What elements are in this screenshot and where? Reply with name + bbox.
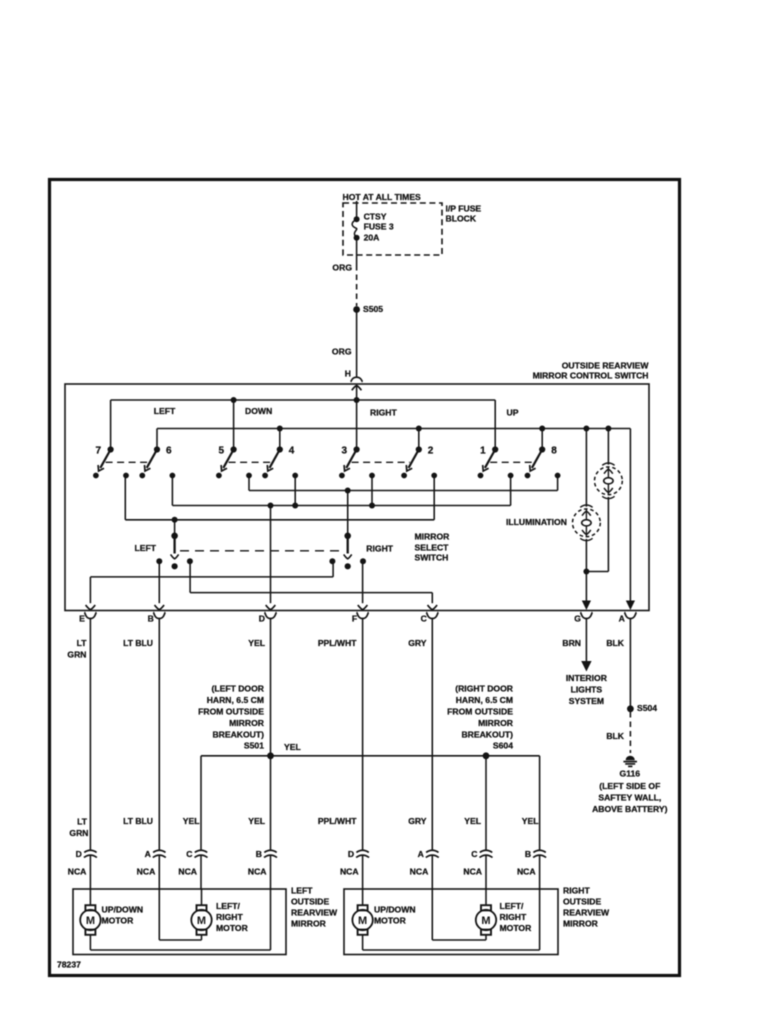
svg-text:A: A <box>418 849 424 859</box>
svg-text:GRY: GRY <box>408 816 427 826</box>
svg-text:C: C <box>421 614 427 624</box>
svg-text:LEFT/: LEFT/ <box>500 901 524 911</box>
svg-text:5: 5 <box>219 446 225 457</box>
svg-text:SYSTEM: SYSTEM <box>569 696 604 706</box>
svg-text:LT BLU: LT BLU <box>123 638 153 648</box>
svg-text:SWITCH: SWITCH <box>415 552 449 562</box>
svg-text:(LEFT DOOR: (LEFT DOOR <box>211 684 264 694</box>
svg-text:CTSY: CTSY <box>364 212 387 222</box>
svg-text:DOWN: DOWN <box>245 406 272 416</box>
svg-text:SELECT: SELECT <box>415 543 450 553</box>
svg-text:20A: 20A <box>364 233 380 243</box>
svg-text:NCA: NCA <box>137 867 156 877</box>
svg-text:I/P FUSE: I/P FUSE <box>446 204 482 214</box>
svg-text:YEL: YEL <box>522 816 539 826</box>
svg-text:LEFT/: LEFT/ <box>216 901 240 911</box>
svg-text:B: B <box>525 849 531 859</box>
svg-text:LT: LT <box>77 638 88 648</box>
svg-text:OUTSIDE: OUTSIDE <box>563 897 601 907</box>
svg-text:ORG: ORG <box>332 263 352 273</box>
svg-text:BLK: BLK <box>606 638 624 648</box>
svg-text:B: B <box>148 614 154 624</box>
svg-text:GRN: GRN <box>69 828 88 838</box>
svg-text:MOTOR: MOTOR <box>374 916 407 926</box>
svg-text:NCA: NCA <box>517 867 536 877</box>
svg-text:F: F <box>352 614 357 624</box>
svg-text:FROM OUTSIDE: FROM OUTSIDE <box>198 707 264 717</box>
svg-text:M: M <box>197 915 206 927</box>
svg-text:RIGHT: RIGHT <box>370 408 397 418</box>
svg-text:YEL: YEL <box>248 816 265 826</box>
svg-text:2: 2 <box>428 446 434 457</box>
svg-text:YEL: YEL <box>248 638 265 648</box>
svg-text:D: D <box>259 614 265 624</box>
svg-text:H: H <box>345 369 351 379</box>
svg-text:8: 8 <box>551 446 557 457</box>
svg-text:MOTOR: MOTOR <box>102 916 135 926</box>
svg-text:7: 7 <box>96 446 102 457</box>
svg-text:LEFT: LEFT <box>291 886 313 896</box>
svg-text:M: M <box>86 915 95 927</box>
svg-text:3: 3 <box>342 446 348 457</box>
svg-text:UP: UP <box>507 408 519 418</box>
svg-text:MOTOR: MOTOR <box>216 923 249 933</box>
svg-text:MIRROR CONTROL SWITCH: MIRROR CONTROL SWITCH <box>533 371 649 381</box>
svg-text:MOTOR: MOTOR <box>500 923 533 933</box>
svg-text:RIGHT: RIGHT <box>500 912 527 922</box>
svg-text:HARN, 6.5 CM: HARN, 6.5 CM <box>456 695 513 705</box>
svg-text:G116: G116 <box>620 769 641 779</box>
svg-text:G: G <box>574 614 581 624</box>
svg-text:LT BLU: LT BLU <box>123 816 153 826</box>
svg-text:NCA: NCA <box>340 867 359 877</box>
svg-text:D: D <box>348 849 354 859</box>
svg-text:SAFTEY WALL,: SAFTEY WALL, <box>598 792 661 802</box>
svg-text:LEFT: LEFT <box>154 406 176 416</box>
svg-text:LEFT: LEFT <box>135 543 157 553</box>
svg-text:NCA: NCA <box>178 867 197 877</box>
svg-text:OUTSIDE: OUTSIDE <box>291 897 329 907</box>
svg-text:REARVIEW: REARVIEW <box>291 908 338 918</box>
svg-text:M: M <box>481 915 490 927</box>
svg-text:HOT AT ALL TIMES: HOT AT ALL TIMES <box>343 192 422 202</box>
svg-text:NCA: NCA <box>68 867 87 877</box>
svg-text:D: D <box>76 849 82 859</box>
svg-text:BREAKOUT): BREAKOUT) <box>461 729 513 739</box>
svg-text:6: 6 <box>166 446 172 457</box>
svg-text:S501: S501 <box>244 741 264 751</box>
svg-text:S504: S504 <box>637 703 657 713</box>
svg-text:S604: S604 <box>493 741 513 751</box>
svg-text:(LEFT SIDE OF: (LEFT SIDE OF <box>599 781 660 791</box>
svg-text:BREAKOUT): BREAKOUT) <box>212 729 264 739</box>
svg-text:RIGHT: RIGHT <box>563 886 590 896</box>
svg-text:MIRROR: MIRROR <box>478 718 514 728</box>
svg-text:B: B <box>256 849 262 859</box>
svg-text:RIGHT: RIGHT <box>216 912 243 922</box>
svg-text:78237: 78237 <box>57 960 81 970</box>
svg-text:FUSE 3: FUSE 3 <box>364 221 394 231</box>
svg-text:INTERIOR: INTERIOR <box>566 673 608 683</box>
svg-text:NCA: NCA <box>248 867 267 877</box>
svg-text:FROM OUTSIDE: FROM OUTSIDE <box>447 707 513 717</box>
svg-text:GRY: GRY <box>408 638 427 648</box>
svg-text:MIRROR: MIRROR <box>291 919 327 929</box>
svg-text:UP/DOWN: UP/DOWN <box>374 905 416 915</box>
svg-text:C: C <box>186 849 192 859</box>
svg-text:YEL: YEL <box>183 816 200 826</box>
svg-text:RIGHT: RIGHT <box>366 544 393 554</box>
svg-text:YEL: YEL <box>464 816 481 826</box>
svg-text:REARVIEW: REARVIEW <box>563 908 610 918</box>
svg-text:A: A <box>619 614 625 624</box>
svg-text:M: M <box>358 915 367 927</box>
svg-text:MIRROR: MIRROR <box>415 532 451 542</box>
svg-text:GRN: GRN <box>67 650 86 660</box>
svg-text:LT: LT <box>77 817 88 827</box>
svg-text:ABOVE BATTERY): ABOVE BATTERY) <box>592 804 668 814</box>
svg-text:HARN, 6.5 CM: HARN, 6.5 CM <box>207 695 264 705</box>
svg-text:E: E <box>79 614 85 624</box>
svg-text:MIRROR: MIRROR <box>563 919 599 929</box>
svg-text:1: 1 <box>480 446 486 457</box>
svg-text:UP/DOWN: UP/DOWN <box>102 905 144 915</box>
svg-text:BLK: BLK <box>606 731 624 741</box>
svg-text:(RIGHT DOOR: (RIGHT DOOR <box>455 684 514 694</box>
svg-text:A: A <box>145 849 151 859</box>
svg-text:PPL/WHT: PPL/WHT <box>318 638 357 648</box>
svg-text:BLOCK: BLOCK <box>446 214 477 224</box>
svg-text:ORG: ORG <box>332 347 352 357</box>
svg-text:4: 4 <box>289 446 295 457</box>
svg-text:LIGHTS: LIGHTS <box>571 685 603 695</box>
svg-text:MIRROR: MIRROR <box>229 718 265 728</box>
svg-text:NCA: NCA <box>410 867 429 877</box>
svg-text:OUTSIDE REARVIEW: OUTSIDE REARVIEW <box>562 361 650 371</box>
svg-text:YEL: YEL <box>284 742 301 752</box>
svg-text:S505: S505 <box>363 304 383 314</box>
svg-text:BRN: BRN <box>562 638 581 648</box>
svg-text:ILLUMINATION: ILLUMINATION <box>506 517 567 527</box>
svg-text:C: C <box>471 849 477 859</box>
svg-text:NCA: NCA <box>463 867 482 877</box>
svg-text:PPL/WHT: PPL/WHT <box>318 816 357 826</box>
